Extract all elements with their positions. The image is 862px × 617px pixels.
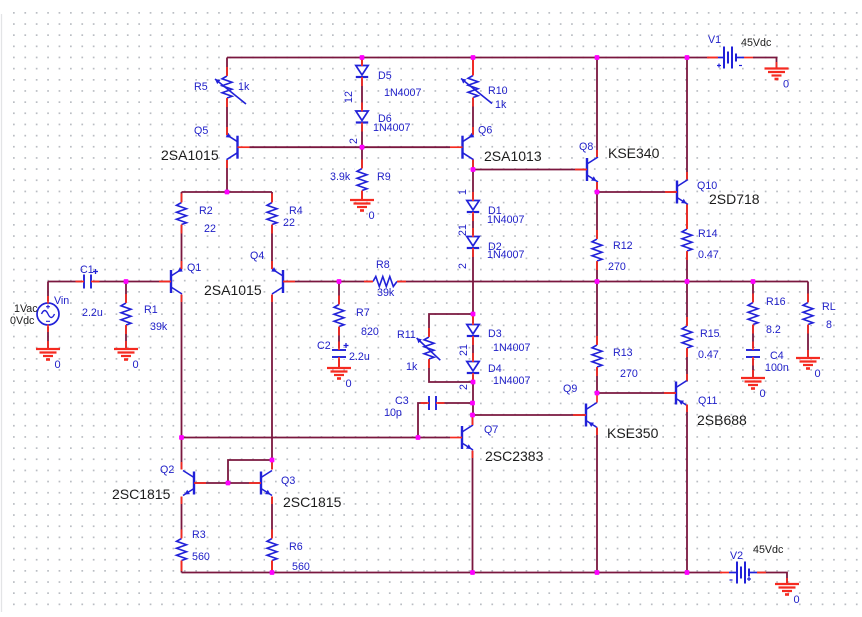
svg-text:Q3: Q3 bbox=[281, 475, 295, 487]
svg-text:39k: 39k bbox=[150, 321, 168, 333]
svg-text:10p: 10p bbox=[384, 407, 402, 419]
svg-text:1N4007: 1N4007 bbox=[493, 342, 530, 354]
svg-text:1k: 1k bbox=[495, 99, 507, 111]
svg-text:R1: R1 bbox=[144, 304, 158, 316]
svg-text:8: 8 bbox=[826, 319, 832, 331]
svg-text:0: 0 bbox=[133, 359, 139, 371]
svg-text:Vin: Vin bbox=[54, 295, 69, 307]
svg-text:0: 0 bbox=[760, 388, 766, 400]
svg-text:0: 0 bbox=[783, 79, 789, 91]
svg-text:R16: R16 bbox=[766, 296, 786, 308]
svg-text:R7: R7 bbox=[356, 307, 370, 319]
svg-text:D5: D5 bbox=[378, 70, 392, 82]
svg-text:1k: 1k bbox=[238, 81, 250, 93]
svg-text:R13: R13 bbox=[613, 347, 633, 359]
svg-text:1N4007: 1N4007 bbox=[487, 249, 524, 261]
svg-text:2SC1815: 2SC1815 bbox=[112, 486, 171, 502]
svg-text:R11: R11 bbox=[397, 329, 416, 341]
svg-text:8.2: 8.2 bbox=[766, 324, 781, 336]
svg-text:21: 21 bbox=[458, 344, 470, 356]
svg-text:2SB688: 2SB688 bbox=[697, 412, 747, 428]
svg-text:R2: R2 bbox=[199, 205, 213, 217]
svg-text:2SC1815: 2SC1815 bbox=[283, 494, 342, 510]
svg-text:KSE350: KSE350 bbox=[607, 425, 659, 441]
svg-text:22: 22 bbox=[204, 223, 216, 235]
svg-text:KSE340: KSE340 bbox=[608, 145, 660, 161]
svg-text:45Vdc: 45Vdc bbox=[753, 544, 784, 556]
svg-text:0: 0 bbox=[794, 594, 800, 606]
svg-text:39k: 39k bbox=[377, 287, 395, 299]
svg-text:1k: 1k bbox=[406, 361, 418, 373]
svg-text:R15: R15 bbox=[700, 328, 720, 340]
svg-text:2: 2 bbox=[348, 138, 360, 144]
svg-text:100n: 100n bbox=[765, 362, 789, 374]
svg-text:0Vdc: 0Vdc bbox=[10, 315, 35, 327]
svg-text:Q6: Q6 bbox=[478, 125, 492, 137]
svg-text:Q9: Q9 bbox=[563, 383, 577, 395]
svg-text:R9: R9 bbox=[377, 171, 391, 183]
svg-text:12: 12 bbox=[343, 91, 355, 103]
svg-text:R6: R6 bbox=[289, 541, 303, 553]
svg-text:21: 21 bbox=[457, 224, 469, 236]
svg-text:560: 560 bbox=[192, 551, 210, 563]
svg-text:2SD718: 2SD718 bbox=[709, 191, 760, 207]
svg-text:Q2: Q2 bbox=[160, 464, 174, 476]
svg-text:Q11: Q11 bbox=[698, 395, 717, 407]
svg-text:Q4: Q4 bbox=[250, 250, 264, 262]
svg-text:R8: R8 bbox=[376, 259, 390, 271]
svg-text:R3: R3 bbox=[192, 529, 206, 541]
svg-text:1: 1 bbox=[457, 189, 469, 195]
svg-text:820: 820 bbox=[361, 326, 379, 338]
svg-text:2SA1015: 2SA1015 bbox=[161, 147, 219, 163]
svg-text:1N4007: 1N4007 bbox=[384, 87, 421, 99]
svg-text:2: 2 bbox=[457, 263, 469, 269]
svg-text:2SC2383: 2SC2383 bbox=[485, 448, 544, 464]
svg-text:Q7: Q7 bbox=[484, 424, 498, 436]
svg-text:R14: R14 bbox=[698, 228, 718, 240]
svg-text:C4: C4 bbox=[770, 350, 784, 362]
svg-text:3.9k: 3.9k bbox=[330, 171, 351, 183]
svg-text:2: 2 bbox=[458, 384, 470, 390]
svg-text:C3: C3 bbox=[395, 395, 409, 407]
svg-text:0: 0 bbox=[346, 378, 352, 390]
svg-text:270: 270 bbox=[620, 368, 638, 380]
svg-text:0: 0 bbox=[55, 359, 61, 371]
svg-text:R5: R5 bbox=[194, 81, 208, 93]
svg-text:2SA1013: 2SA1013 bbox=[484, 148, 542, 164]
svg-text:D4: D4 bbox=[488, 363, 502, 375]
svg-text:RL: RL bbox=[822, 301, 836, 313]
svg-text:22: 22 bbox=[283, 217, 295, 229]
svg-text:R10: R10 bbox=[488, 85, 508, 97]
svg-text:1N4007: 1N4007 bbox=[493, 375, 530, 387]
svg-text:C2: C2 bbox=[317, 340, 331, 352]
svg-text:V1: V1 bbox=[708, 34, 721, 46]
svg-text:Q1: Q1 bbox=[187, 262, 201, 274]
svg-text:1N4007: 1N4007 bbox=[373, 122, 410, 134]
svg-text:0: 0 bbox=[815, 368, 821, 380]
svg-text:V2: V2 bbox=[730, 550, 743, 562]
svg-text:Q8: Q8 bbox=[579, 141, 593, 153]
svg-text:0: 0 bbox=[369, 210, 375, 222]
svg-text:1N4007: 1N4007 bbox=[487, 214, 524, 226]
svg-text:0.47: 0.47 bbox=[698, 249, 719, 261]
svg-text:2.2u: 2.2u bbox=[349, 351, 370, 363]
svg-text:270: 270 bbox=[608, 261, 626, 273]
svg-text:1Vac: 1Vac bbox=[14, 303, 38, 315]
svg-text:0.47: 0.47 bbox=[698, 349, 719, 361]
svg-text:2.2u: 2.2u bbox=[82, 307, 103, 319]
svg-text:C1: C1 bbox=[80, 264, 94, 276]
svg-text:Q5: Q5 bbox=[194, 125, 208, 137]
svg-text:D3: D3 bbox=[488, 328, 502, 340]
svg-text:2SA1015: 2SA1015 bbox=[204, 282, 262, 298]
svg-text:R12: R12 bbox=[613, 240, 633, 252]
svg-text:R4: R4 bbox=[289, 205, 303, 217]
svg-text:560: 560 bbox=[292, 561, 310, 573]
svg-text:45Vdc: 45Vdc bbox=[741, 37, 772, 49]
